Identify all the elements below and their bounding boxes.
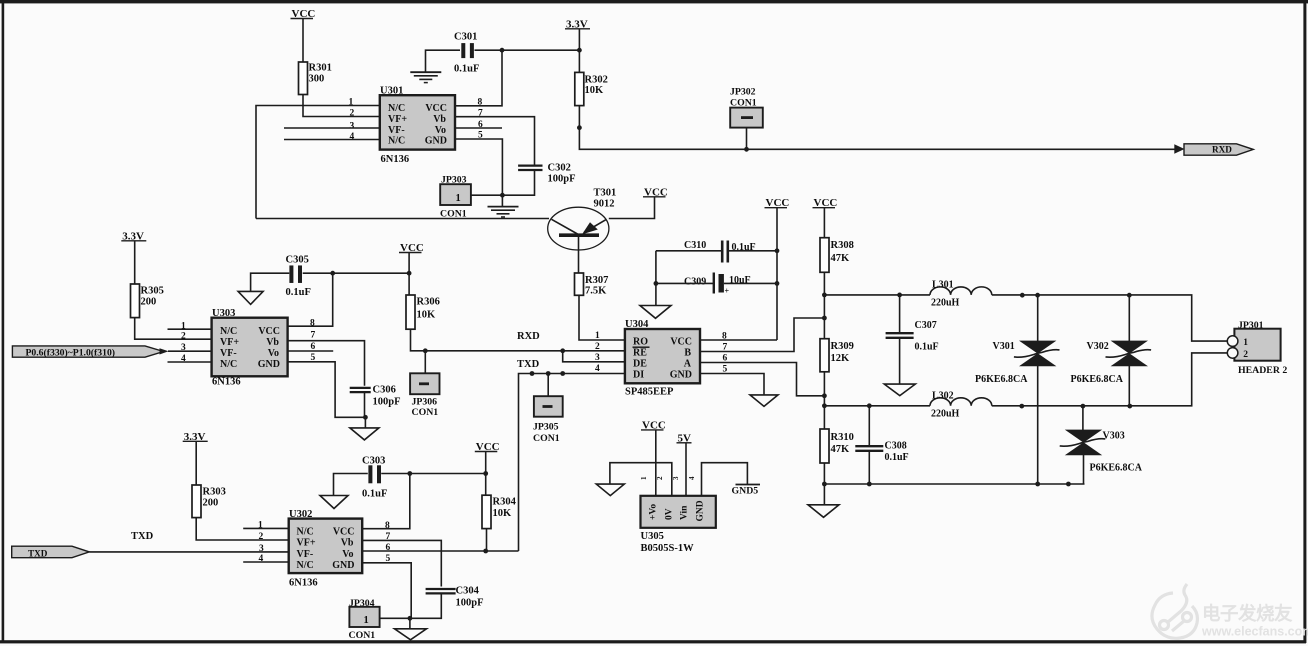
svg-text:VF-: VF- [297,549,314,560]
ground (C301 earth) [410,71,441,73]
svg-text:N/C: N/C [297,527,314,538]
JP301 pin 2 circle [1227,348,1238,359]
svg-text:C309: C309 [684,277,706,288]
svg-text:L301: L301 [932,280,954,291]
svg-text:VF+: VF+ [220,337,239,348]
svg-text:C305: C305 [286,254,309,265]
svg-text:10uF: 10uF [729,275,751,286]
wire VCC to R306 [408,253,410,296]
node R304/pin6 junction [483,549,488,554]
wire JP306 to node [424,351,426,374]
svg-text:B0505S-1W: B0505S-1W [641,543,695,554]
svg-text:Vb: Vb [341,538,354,549]
svg-text:VF-: VF- [388,125,405,136]
wire arrow to U303 pin 3 [168,350,212,352]
wire TXD/DI line [519,374,625,552]
capacitor C304 [426,588,456,590]
svg-text:1: 1 [364,615,369,626]
ground (U301 pin5 earth) [501,195,503,206]
svg-text:C310: C310 [684,240,706,251]
page border frame [0,0,1308,3]
wire C307 bottom to ground [899,338,901,384]
wire VCC to R301 [302,19,304,63]
wire U302 pin 8 up to C303 net [362,474,410,529]
svg-text:U304: U304 [625,319,649,330]
svg-text:CON1: CON1 [349,630,376,641]
JP301 pin 1 circle [1227,336,1238,347]
wire U303 pin 5 down to C306 bottom node [288,362,366,418]
wire U304 pin 6 (A) down to divider [700,363,824,396]
svg-text:TXD: TXD [28,548,48,558]
svg-text:C302: C302 [548,163,571,174]
svg-text:100pF: 100pF [456,598,484,609]
wire T301 to R307 [578,237,580,273]
svg-text:10K: 10K [585,85,605,96]
svg-text:C303: C303 [362,455,385,466]
wire R302 to RXD line [579,106,1175,150]
wire U302 pin 7 to C304 [362,540,441,586]
wire C303 right to VCC net [381,473,486,475]
svg-text:3: 3 [672,476,680,480]
transistor T301 body circle [548,207,609,250]
TVS diode V301 [1037,295,1039,341]
svg-text:1: 1 [640,476,648,480]
svg-text:1: 1 [456,193,461,204]
transistor T301 collector diagonal [552,219,578,234]
svg-text:3: 3 [595,353,600,363]
svg-text:2: 2 [259,532,264,542]
ground (C306 triangle) [364,417,366,428]
wire R310 to ground [823,463,825,505]
svg-text:100pF: 100pF [548,174,576,185]
wire C310/C309 left vertical to ground [655,251,657,306]
node C309 left junction [654,281,659,286]
wire 3.3V to R305 [134,241,136,284]
svg-text:Vo: Vo [268,348,279,359]
wire RE to DE jog [563,351,625,362]
connector JP306 box [410,373,439,394]
svg-text:GND: GND [425,136,447,147]
ground (U304 pin5 triangle) [750,395,778,407]
svg-text:R304: R304 [493,497,517,508]
svg-text:电子发烧友: 电子发烧友 [1202,603,1293,624]
svg-text:VCC: VCC [425,103,447,114]
svg-text:A: A [684,359,692,370]
svg-text:P6KE6.8CA: P6KE6.8CA [975,374,1028,385]
wire node to transistor base [256,218,549,220]
ground (C305 triangle) [238,291,263,304]
DC-DC converter U305 box [641,496,716,528]
resistor R308 [820,238,829,273]
svg-text:GND: GND [258,359,280,370]
svg-text:1: 1 [1243,338,1248,348]
node C303/U302 pin8 junction [407,471,412,476]
svg-text:R305: R305 [141,285,164,296]
node R306/JP306 junction [423,348,428,353]
wire U301 pin 5 down to JP303 node [455,139,502,195]
svg-text:0V: 0V [665,508,675,520]
svg-text:R306: R306 [417,296,440,307]
node C305/R306 junction [407,271,412,276]
svg-text:6N136: 6N136 [289,578,318,589]
svg-text:P0.6(f330)~P1.0(f310): P0.6(f330)~P1.0(f310) [26,347,116,358]
svg-text:6N136: 6N136 [212,377,241,388]
svg-text:12K: 12K [831,353,851,364]
wire C306 to bottom node [364,392,366,417]
power symbol GND5 [736,484,761,486]
svg-text:RXD: RXD [1212,145,1232,155]
wire C302 to JP303 node [471,170,535,195]
wire U303 pin 8 up to C305 net [288,273,333,326]
svg-text:C306: C306 [373,385,396,396]
connector JP301 box [1234,329,1280,361]
svg-text:0.1uF: 0.1uF [286,287,311,298]
svg-text:P6KE6.8CA: P6KE6.8CA [1071,374,1124,385]
svg-text:0.1uF: 0.1uF [885,452,909,463]
svg-text:220uH: 220uH [931,408,960,419]
svg-text:2: 2 [656,476,664,480]
capacitor C305 [289,265,293,283]
svg-text:2: 2 [181,332,186,342]
wire JP305 to DI line [547,374,549,397]
svg-text:10K: 10K [417,310,437,321]
connector JP302 box [730,108,763,128]
svg-text:U302: U302 [289,509,312,520]
wire 5V to U305 Vin [685,443,687,496]
wire U303 pin 6 stub [288,350,334,352]
transceiver U304 box [625,329,700,383]
svg-text:+: + [725,287,730,296]
svg-text:DI: DI [633,370,644,381]
svg-text:7.5K: 7.5K [585,286,607,297]
wire U301 pin 4 stub [284,139,380,141]
svg-text:L302: L302 [932,391,954,402]
wire VCC to T301 emitter [609,197,655,219]
wire C309 left [656,282,714,284]
svg-text:0.1uF: 0.1uF [454,64,479,75]
capacitor C301 [461,43,465,58]
wire U302 pin 5 down to JP304 node [362,563,411,619]
wire VCC to R304 [485,452,487,496]
svg-text:CON1: CON1 [412,407,439,418]
svg-text:R307: R307 [585,275,608,286]
svg-text:V302: V302 [1087,341,1109,352]
node C305/U303 pin8 junction [330,271,335,276]
wire R305 to U303 pin 2 [135,318,212,340]
JP306 rotated pin 1 mark [419,382,429,385]
svg-text:Vb: Vb [433,114,446,125]
svg-text:V303: V303 [1103,430,1125,441]
svg-text:CON1: CON1 [533,433,560,444]
svg-text:+Vo: +Vo [649,504,659,520]
node L301 junction [822,293,827,298]
net arrow P0.6(f330)~P1.0(f310) [12,346,163,357]
capacitor C308 [855,445,883,447]
node JP303/pin5/C302 junction [500,193,505,198]
svg-text:1: 1 [349,98,354,108]
resistor R307 [575,273,584,295]
capacitor C309 (electrolytic) [713,273,715,294]
wire C309 right [724,282,777,284]
wire R304 to pin6 line [486,529,488,551]
wire C307 top [899,295,901,333]
wire U304 pin 5 to ground [700,374,764,395]
svg-text:GND: GND [332,560,354,571]
JP302 rotated pin 1 mark [741,116,753,119]
wire U302 pin 4 stub [243,561,288,563]
ground (U302 pin5 triangle) [409,618,411,629]
svg-text:JP306: JP306 [412,396,438,407]
node ground rail corner [822,482,827,487]
svg-text:2: 2 [595,342,600,352]
node C301/pin8 junction [500,48,505,53]
node C310/VCC junction [775,248,780,253]
capacitor C302 [518,164,542,166]
node below R302 [577,125,582,130]
wire JP302 to RXD line [746,128,748,150]
svg-text:R302: R302 [585,74,608,85]
svg-text:10K: 10K [493,508,513,519]
ground (C310/C309 triangle) [640,306,671,319]
svg-text:0.1uF: 0.1uF [915,342,939,353]
inductor L301 [930,287,992,295]
optocoupler U302 box [289,519,363,574]
svg-text:VF+: VF+ [297,538,316,549]
wire U302 pin 1 stub [243,527,288,529]
svg-text:N/C: N/C [297,560,314,571]
wire TXD arrow to U302 pin 3 [89,551,288,553]
wire U303 pin 4 stub [168,361,212,363]
connector JP304 box [349,607,379,627]
svg-text:200: 200 [141,296,157,307]
svg-text:N/C: N/C [388,136,405,147]
net arrow RXD (top right) [1174,144,1184,153]
wire C310 left [656,250,723,252]
svg-text:C307: C307 [915,320,937,331]
node JP302 junction [744,147,749,152]
wire U301 pin 7 to C302 [455,117,535,165]
svg-text:Vo: Vo [435,125,446,136]
wire U303 pin 7 to C306 [288,341,365,386]
wire R307 to U304 pin 1 [579,295,625,340]
svg-text:N/C: N/C [220,359,237,370]
svg-text:www.elecfans.com: www.elecfans.com [1201,625,1308,639]
svg-text:6N136: 6N136 [381,154,410,165]
node C306 bottom junction [363,415,368,420]
wire L302 line left segment [824,405,930,407]
op-to-coupler U301 box [380,95,455,149]
svg-text:RXD: RXD [517,331,540,342]
svg-text:4: 4 [350,132,355,142]
node ground rail dots [867,482,872,487]
wire L301 line right segment to JP301 pin1 [992,295,1228,341]
optocoupler U303 box [212,318,288,377]
svg-text:C308: C308 [885,441,907,452]
wire U304 pin 8 to VCC vertical [700,339,777,341]
wire R303 to U302 pin 2 [196,518,288,540]
svg-text:VF+: VF+ [388,114,407,125]
connector JP303 box [440,184,471,205]
node C308 junction [867,403,872,408]
resistor R303 [192,485,201,518]
wire R306 to RXD line and JP306 [411,329,563,351]
capacitor C303 [368,465,372,483]
wire RXD line to U304 pin 2 [563,350,625,352]
svg-text:0.1uF: 0.1uF [362,488,387,499]
wire VCC vertical to U304 pin8 [776,208,778,340]
node C309/VCC junction [775,281,780,286]
svg-text:CON1: CON1 [440,209,467,220]
capacitor C307 [886,332,914,334]
ground (C303 triangle) [320,496,348,509]
svg-text:U301: U301 [380,86,403,97]
resistor R305 [131,284,140,318]
connector JP305 box [534,396,563,417]
svg-text:HEADER 2: HEADER 2 [1238,365,1287,376]
svg-text:GND5: GND5 [732,486,759,497]
svg-text:47K: 47K [831,253,851,264]
svg-text:R308: R308 [831,240,854,251]
svg-text:V301: V301 [993,341,1015,352]
node A divider junction [822,393,827,398]
transistor T301 emitter diagonal with arrow [584,219,607,232]
wire C303 left to ground [334,474,368,496]
svg-text:GND: GND [670,370,692,381]
svg-text:VCC: VCC [258,326,280,337]
svg-text:R310: R310 [831,432,854,443]
svg-text:220uH: 220uH [931,297,960,308]
wire R308 to R309 chain [823,272,825,338]
svg-text:TXD: TXD [517,359,540,370]
wire C304 to JP304 node [380,593,442,618]
svg-text:300: 300 [309,74,325,85]
wire R309 to R310 chain [823,372,825,429]
capacitor C310 [721,241,724,263]
node L302 junction [822,403,827,408]
resistor R301 [299,62,308,95]
node C303/R304 junction [483,471,488,476]
svg-text:VCC: VCC [670,337,692,348]
node bottom line dots [1019,404,1024,409]
ground (U305 triangle) [596,484,624,496]
node RE/DE junction [560,348,565,353]
wire R301 to U301 pin 2 [303,95,380,117]
svg-text:4: 4 [595,364,600,374]
wire C308 bottom [868,451,870,484]
resistor R306 [406,295,415,329]
svg-text:Vb: Vb [266,337,279,348]
svg-text:RO: RO [633,337,648,348]
node 3.3V junction [577,48,582,53]
transistor T301 base bar [559,233,599,237]
svg-text:Vo: Vo [342,549,353,560]
svg-text:DE: DE [633,359,647,370]
ground (C307 triangle) [884,384,915,396]
svg-text:R301: R301 [309,63,332,74]
svg-text:200: 200 [203,497,219,508]
wire L302 line right segment to JP301 pin2 [992,353,1228,406]
wire U305 GND to GND5 [702,463,748,496]
wire 3.3V to R303 [195,441,197,485]
svg-text:N/C: N/C [388,103,405,114]
capacitor C306 [350,387,371,389]
svg-text:TXD: TXD [131,531,154,542]
svg-text:B: B [684,348,691,359]
resistor R310 [820,429,829,463]
TVS diode V303 [1082,406,1084,430]
node JP304/C304/pin5 junction [408,616,413,621]
resistor R309 [820,339,829,372]
svg-text:1: 1 [595,331,600,341]
wire U301 pin 3 stub [284,127,380,129]
wire C305 right to VCC net [303,272,409,274]
svg-text:47K: 47K [831,444,851,455]
node B divider junction [822,316,827,321]
svg-text:N/C: N/C [220,326,237,337]
wire C308 top [868,406,870,446]
watermark logo circle [1152,584,1198,638]
svg-text:GND: GND [696,500,706,521]
svg-text:SP485EEP: SP485EEP [625,387,674,398]
svg-text:9012: 9012 [594,199,615,210]
wire VCC to R308 [823,208,825,238]
svg-text:2: 2 [350,109,355,119]
svg-text:Vin: Vin [680,505,690,520]
wire ground rail [824,483,1084,485]
svg-text:T301: T301 [594,188,617,199]
wire 3.3V to R302 [578,29,580,73]
resistor R304 [482,495,491,528]
resistor R302 [575,72,584,105]
TVS diode V302 [1128,295,1130,341]
svg-text:RE: RE [633,348,647,359]
svg-text:VCC: VCC [333,527,355,538]
svg-text:3: 3 [350,122,355,132]
svg-text:C304: C304 [456,586,480,597]
svg-text:VF-: VF- [220,348,237,359]
svg-text:C301: C301 [454,32,477,43]
svg-text:R309: R309 [831,341,854,352]
wire U303 pin 1 stub [168,328,212,330]
inductor L302 [930,398,992,406]
svg-text:100pF: 100pF [373,397,401,408]
svg-text:2: 2 [1243,350,1248,360]
svg-text:7: 7 [311,331,316,341]
wire L301 line left segment [824,294,930,296]
wire C301 right to 3.3V net [475,49,580,51]
wire U302 pin 6 to R304 node and up [362,550,518,552]
node C307 junction [897,293,902,298]
ground (R310 triangle) [808,505,839,518]
svg-text:JP305: JP305 [533,422,559,433]
wire C305 left to ground [251,273,290,291]
JP305 rotated pin 1 mark [543,405,553,408]
wire U301 pin 1 to node down-left [256,106,380,219]
svg-text:R303: R303 [203,486,226,497]
wire C310 right [727,250,777,252]
wire C301 left to ground [426,50,461,71]
net arrow TXD [12,546,90,558]
svg-text:4: 4 [688,476,696,480]
node top line dots [1020,293,1025,298]
svg-text:JP302: JP302 [730,87,756,98]
node DI dots [530,371,535,376]
wire U305 0V to ground [610,463,672,496]
svg-text:U305: U305 [641,531,664,542]
wire U301 pin 8 up to C301 net [455,50,502,106]
svg-text:U303: U303 [212,308,235,319]
wire U301 pin 6 stub [455,127,502,129]
